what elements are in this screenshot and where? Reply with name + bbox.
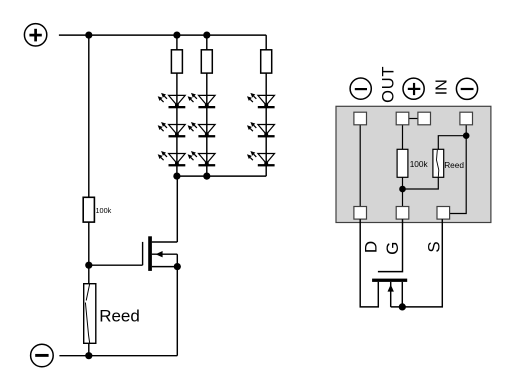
- wire source-body to S: [391, 219, 443, 307]
- wire junction to reed top: [438, 136, 466, 150]
- wire resistor to pad6: [402, 177, 404, 206]
- pad 2: [396, 112, 409, 125]
- LED D7: [247, 93, 275, 108]
- transistor Q1 MOSFET: [143, 236, 178, 271]
- node junction bottom col2: [203, 173, 210, 180]
- node junction top-left: [85, 31, 92, 38]
- svg-text:Reed: Reed: [444, 160, 464, 170]
- node junction gate tap: [85, 262, 92, 269]
- wire pad4 down: [465, 125, 467, 136]
- pad 7: [437, 207, 450, 220]
- wire drain vertical: [176, 176, 178, 242]
- LED D1: [158, 93, 186, 108]
- wire net pad2-pad3: [409, 118, 418, 120]
- wire junction to pad7: [450, 136, 467, 214]
- wire col2 vertical: [206, 35, 208, 176]
- wire left vertical mid: [88, 222, 90, 284]
- reed switch S1: [84, 284, 96, 344]
- resistor R2: [201, 50, 212, 73]
- wire col1 vertical: [176, 35, 178, 176]
- wire D vertical: [360, 219, 378, 307]
- wire G vertical: [378, 219, 403, 272]
- perfboard: [336, 106, 491, 222]
- pad 6: [396, 207, 409, 220]
- svg-text:D: D: [361, 241, 380, 253]
- transistor Q2 on board (channel bar): [372, 279, 407, 282]
- svg-text:100k: 100k: [410, 159, 429, 169]
- wire bottom rail: [59, 355, 177, 357]
- terminal + IN (board): [403, 78, 424, 99]
- pad 3: [418, 112, 431, 125]
- pad 5: [354, 207, 367, 220]
- node junction bottom reed: [85, 352, 92, 359]
- node junction top col2: [203, 31, 210, 38]
- svg-text:S: S: [425, 241, 444, 252]
- wire net pad1-pad5: [359, 125, 361, 207]
- resistor R1: [171, 50, 182, 73]
- node junction bottom col1: [173, 173, 180, 180]
- LED D3: [158, 151, 186, 166]
- transistor Q2 body stub: [401, 282, 403, 307]
- svg-text:OUT: OUT: [380, 66, 398, 103]
- LED D5: [188, 122, 216, 137]
- node junction source-body: [174, 263, 181, 270]
- LED D4: [188, 93, 216, 108]
- svg-text:100k: 100k: [96, 206, 112, 215]
- terminal + (left schematic): [24, 24, 46, 46]
- wire LED bottom rail: [177, 175, 266, 177]
- wire junction to reed bottom: [403, 177, 439, 189]
- terminal - right (board): [456, 78, 477, 99]
- wire left vertical from + rail: [88, 35, 90, 197]
- resistor R3: [261, 50, 272, 73]
- svg-text:G: G: [383, 242, 402, 255]
- reed switch S2 on board: [433, 149, 444, 177]
- LED D8: [247, 122, 275, 137]
- transistor Q2 source stub with arrow: [388, 282, 394, 307]
- LED D9: [247, 151, 275, 166]
- node junction top col1: [173, 31, 180, 38]
- pad 4: [460, 112, 473, 125]
- wire reed to bottom rail: [88, 343, 90, 355]
- LED D2: [158, 122, 186, 137]
- terminal - OUT (board): [350, 78, 371, 99]
- wire gate horizontal: [89, 264, 143, 266]
- svg-text:Reed: Reed: [99, 306, 140, 325]
- resistor R5 on board (100k): [397, 149, 408, 177]
- wire pad2 to resistor: [402, 125, 404, 150]
- terminal - (left schematic): [31, 344, 54, 367]
- node junction board source: [463, 132, 470, 139]
- pad 1: [354, 112, 367, 125]
- svg-text:IN: IN: [433, 79, 450, 95]
- LED D6: [188, 151, 216, 166]
- wire col3 vertical: [265, 35, 267, 176]
- wire source vertical: [176, 254, 178, 356]
- node junction body-source bottom: [399, 303, 406, 310]
- node junction board gate: [399, 186, 406, 193]
- wire top rail: [59, 34, 266, 36]
- resistor R4 100k: [83, 197, 94, 222]
